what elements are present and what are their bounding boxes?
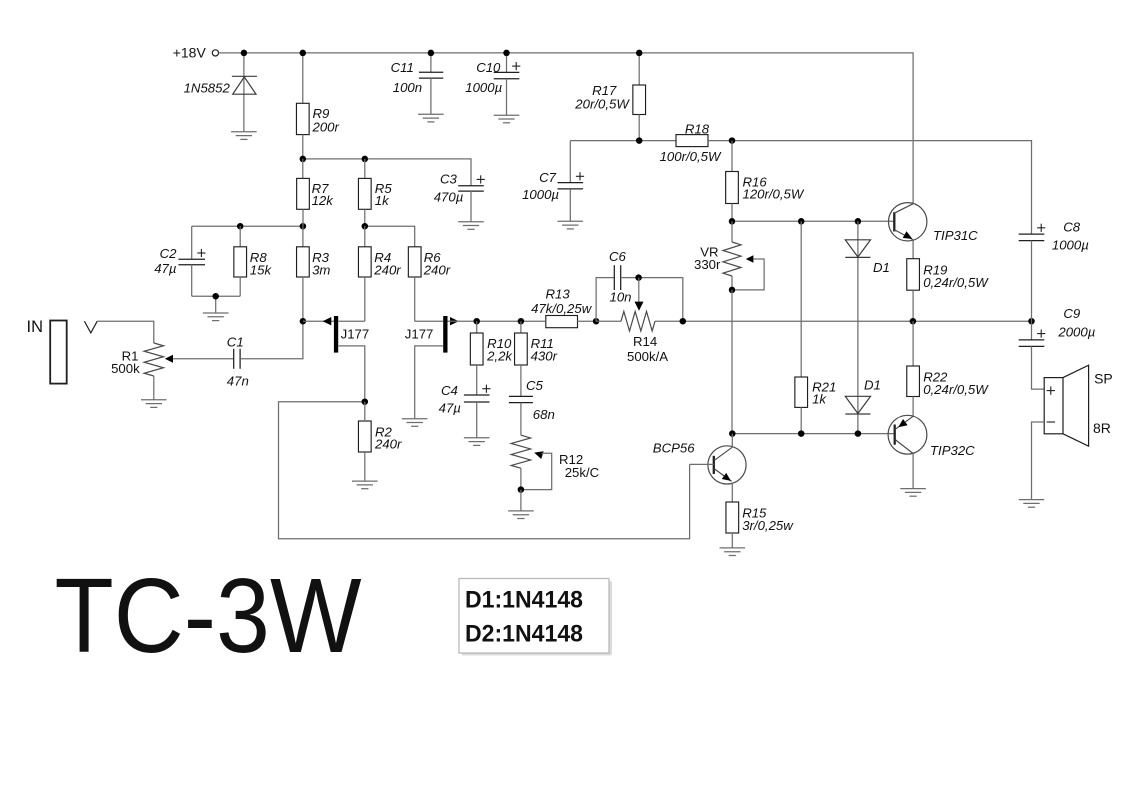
junction bias bottom/R21 (798, 430, 805, 437)
resistor R5 (358, 178, 371, 209)
svg-text:TIP32C: TIP32C (930, 443, 975, 458)
J1 gate arrow (323, 317, 332, 325)
capacitor C3 (458, 186, 484, 191)
wire R16 top (731, 141, 733, 172)
junction R12 wiper node (518, 486, 525, 493)
wire C2 top (191, 226, 193, 259)
svg-text:47k/0,25w: 47k/0,25w (531, 301, 593, 316)
svg-text:15k: 15k (250, 262, 273, 277)
wire C2-R8 link (192, 296, 241, 313)
svg-text:430r: 430r (531, 348, 558, 363)
junction bias bottom/D1 (855, 430, 862, 437)
wire R3 top (302, 226, 304, 247)
transistor J177 #1 channel bar (334, 316, 338, 353)
svg-text:C4: C4 (441, 383, 458, 398)
wire C11 top (430, 53, 432, 72)
junction bias top/R21 (798, 218, 805, 225)
resistor R8 (234, 247, 247, 277)
wire R11 bottom (520, 365, 522, 396)
wire R12 to ground (520, 490, 522, 511)
wire bias rail top (732, 220, 894, 222)
capacitor C1 (234, 349, 240, 369)
resistor R18 (676, 135, 708, 147)
wire R17 bottom (638, 115, 640, 141)
svg-text:240r: 240r (373, 262, 401, 277)
wire R9 node rail (303, 159, 471, 186)
junction R8 top node (237, 223, 244, 230)
wire signal rail (477, 320, 545, 322)
svg-text:3r/0,25w: 3r/0,25w (742, 518, 794, 533)
wire C8 bottom (1031, 241, 1033, 322)
svg-text:D1: D1 (873, 260, 890, 275)
wire R9 top (302, 53, 304, 103)
wire J2 drain stub (415, 320, 444, 322)
wire R2 bottom (364, 452, 366, 481)
junction R17/R18 node (636, 137, 643, 144)
svg-text:47µ: 47µ (154, 261, 177, 276)
junction gate1 node (300, 318, 307, 325)
junction R16/VR node (729, 218, 736, 225)
junction R13/R14 node (593, 318, 600, 325)
TIP31C emitter arrow (903, 231, 913, 239)
capacitor C6 (614, 265, 620, 290)
svg-text:0,24r/0,5W: 0,24r/0,5W (923, 275, 989, 290)
ground C3 (458, 222, 484, 230)
VR wiper arrow (746, 255, 754, 262)
resistor R15 (726, 502, 739, 533)
wire TIP31C emitter wire (912, 240, 914, 258)
wire C9 top (1031, 321, 1033, 340)
resistor R6 (408, 247, 421, 277)
svg-text:120r/0,5W: 120r/0,5W (743, 187, 805, 202)
wire C7 bottom (569, 189, 571, 221)
resistor R11 (515, 333, 528, 365)
svg-text:240r: 240r (423, 262, 451, 277)
wire BCP56 emitter wire (731, 483, 733, 502)
wire output rail (683, 320, 1032, 322)
svg-text:C3: C3 (440, 172, 458, 187)
svg-text:3m: 3m (312, 262, 330, 277)
wire gate bias rail left (192, 225, 303, 227)
diode D1 lower (845, 396, 870, 414)
svg-text:1N5852: 1N5852 (184, 81, 231, 96)
potentiometer R12 zigzag (511, 435, 530, 468)
wire R8 bottom (239, 277, 241, 296)
potentiometer VR zigzag (723, 242, 741, 276)
wire C1 to gate node (240, 321, 303, 359)
junction +18V/C11 (428, 50, 435, 57)
junction +18V/1N5852 (241, 50, 248, 57)
svg-text:R18: R18 (685, 122, 710, 137)
wire C4 bottom (476, 402, 478, 438)
capacitor C9 (1019, 340, 1045, 347)
wire input wire (97, 321, 154, 343)
wire TIP32C collector wire (912, 454, 914, 489)
junction C2/R8 gnd tap (212, 293, 219, 300)
resistor R9 (296, 103, 309, 134)
transistor J177 #2 channel bar (443, 316, 447, 353)
junction bias top/D1 (855, 218, 862, 225)
svg-text:C10: C10 (476, 60, 501, 75)
resistor R7 (297, 178, 310, 209)
terminal +18V (212, 50, 218, 56)
svg-text:J177: J177 (405, 327, 434, 342)
wire J1 gate wire (303, 320, 334, 322)
resistor R13 (546, 316, 578, 328)
wire R9 bottom (302, 135, 304, 159)
resistor R17 (633, 85, 646, 115)
svg-text:47µ: 47µ (439, 401, 462, 416)
wire R22 bottom (912, 397, 914, 417)
wire R4 bottom (drain) (364, 277, 366, 321)
wire R10 top (476, 321, 478, 333)
resistor R2 (358, 421, 371, 452)
R12 wiper arrow (534, 451, 543, 459)
junction VR wiper node (729, 287, 736, 294)
junction R10 node (473, 318, 480, 325)
wire VR top lead (731, 221, 733, 242)
svg-text:68n: 68n (533, 407, 555, 422)
ground C7 (558, 221, 584, 229)
ground speaker (1019, 500, 1045, 508)
svg-text:D1: D1 (864, 378, 881, 393)
svg-text:C11: C11 (391, 60, 414, 75)
junction +18V/R9 (300, 50, 307, 57)
R14 wiper arrow shaft (638, 278, 640, 303)
svg-text:100n: 100n (393, 80, 422, 95)
wire R13 to node (577, 320, 596, 322)
ground R12 (508, 511, 534, 519)
wire rail R18-C8 (708, 141, 1032, 235)
wire C6 left (596, 278, 614, 322)
svg-text:R13: R13 (545, 286, 570, 301)
wire gate bias rail right (365, 226, 415, 247)
diode 1N5852 (232, 76, 257, 94)
svg-text:+18V: +18V (173, 45, 207, 61)
ground R15 (720, 548, 746, 556)
diode D1 upper (845, 240, 870, 258)
wire R8 top (239, 226, 241, 247)
ground C4 (464, 438, 490, 446)
svg-text:IN: IN (27, 318, 44, 336)
wire R17 top (638, 53, 640, 85)
speaker + mark (1047, 386, 1055, 394)
junction R11 node (518, 318, 525, 325)
capacitor C4 (464, 395, 490, 402)
svg-text:100r/0,5W: 100r/0,5W (660, 149, 722, 164)
junction R9/R7 node (300, 156, 307, 163)
svg-text:330r: 330r (694, 257, 721, 272)
svg-text:C5: C5 (526, 378, 544, 393)
svg-text:470µ: 470µ (434, 189, 464, 204)
wire rail R17-R18 (570, 140, 676, 142)
wire +18V rail (219, 53, 914, 203)
R1 wiper arrow (165, 355, 173, 363)
speaker SP (1044, 365, 1088, 446)
wire R19 bottom (912, 290, 914, 321)
wire R2 top (364, 402, 366, 421)
ground J2 source (402, 419, 428, 427)
wire R21 bottom (800, 407, 802, 433)
wire 1N5852 anode/cathode (243, 53, 245, 132)
svg-text:500k: 500k (111, 361, 140, 376)
svg-text:C7: C7 (539, 170, 557, 185)
junction R14 right node (680, 318, 687, 325)
svg-text:C6: C6 (609, 249, 627, 264)
junction +18V/C10 (503, 50, 510, 57)
resistor R21 (795, 377, 808, 407)
wire R4 top (364, 226, 366, 247)
wire J2 gate wire (448, 320, 477, 322)
wire J2 source stub (415, 346, 444, 419)
wire C2 bottom (191, 265, 193, 297)
wire R14 left lead (596, 320, 621, 322)
svg-text:47n: 47n (227, 373, 249, 388)
svg-text:1k: 1k (375, 193, 390, 208)
svg-text:25k/C: 25k/C (565, 465, 600, 480)
ground 1N5852 (231, 132, 257, 140)
wire BCP56 base wire (690, 463, 714, 465)
ground TIP32C (900, 489, 926, 497)
svg-text:D2:1N4148: D2:1N4148 (465, 621, 583, 648)
wire R21 top (800, 221, 802, 377)
svg-text:R14: R14 (633, 334, 657, 349)
wire R12 bottom (520, 468, 522, 489)
potentiometer R1 zigzag (144, 343, 163, 376)
svg-text:200r: 200r (312, 119, 340, 134)
wire VR wiper (732, 259, 764, 290)
svg-text:2,2k: 2,2k (486, 348, 513, 363)
BCP56 emitter arrow (722, 473, 731, 481)
svg-text:J177: J177 (341, 327, 370, 342)
junction C6/wiper node (635, 274, 642, 281)
wire C9 bottom (1032, 346, 1045, 389)
svg-text:0,24r/0,5W: 0,24r/0,5W (923, 382, 989, 397)
potentiometer R14 zigzag (621, 311, 655, 331)
capacitor C5 (509, 396, 533, 402)
capacitor C11 (419, 72, 443, 78)
svg-text:SP: SP (1094, 370, 1113, 386)
svg-text:TC-3W: TC-3W (55, 557, 362, 675)
wire R22 top (912, 321, 914, 366)
wire speaker return (1032, 422, 1045, 500)
svg-text:C8: C8 (1063, 220, 1081, 235)
wire D1 upper top (857, 221, 859, 433)
wire C10 top (506, 53, 508, 73)
svg-text:1000µ: 1000µ (522, 187, 559, 202)
svg-text:TIP31C: TIP31C (933, 228, 978, 243)
wire R5 bottom (364, 209, 366, 226)
resistor R22 (907, 366, 920, 397)
wire J1 drain stub (338, 320, 365, 322)
ground C11 (418, 114, 444, 122)
junction output/R19 (910, 318, 917, 325)
wire R1 wiper to C1 (173, 358, 234, 360)
svg-text:C9: C9 (1063, 306, 1081, 321)
wire VR to BCP56 collector (731, 290, 733, 434)
wire R15 bottom (731, 533, 733, 548)
svg-text:10n: 10n (610, 290, 632, 305)
transistor TIP31C (889, 203, 927, 241)
transistor TIP32C (888, 415, 927, 454)
svg-text:1000µ: 1000µ (465, 80, 502, 95)
resistor R10 (470, 333, 483, 365)
wire VR bottom lead (731, 276, 733, 290)
svg-text:500k/A: 500k/A (627, 349, 668, 364)
wire C5 bottom (520, 403, 522, 436)
svg-text:20r/0,5W: 20r/0,5W (574, 97, 630, 112)
junction +18V/R17 (636, 50, 643, 57)
junction output/C8-C9 (1028, 318, 1035, 325)
wire R12 wiper (521, 453, 552, 489)
wire R6 bottom (drain) (414, 277, 416, 321)
junction R5 top node (362, 156, 369, 163)
svg-text:C1: C1 (227, 335, 244, 350)
input plug tip (84, 321, 97, 333)
ground C2/R8 (203, 313, 229, 321)
junction R18/R16 node (729, 137, 736, 144)
junction J1 source/R2/feedback (362, 398, 369, 405)
legend box shadow (462, 581, 613, 656)
wire R11 top (520, 321, 522, 333)
wire R1 bottom (153, 376, 155, 400)
resistor R4 (358, 247, 371, 277)
wire R7 bottom (302, 209, 304, 226)
svg-text:C2: C2 (160, 246, 178, 261)
wire bias rail bottom (732, 433, 893, 435)
capacitor C8 (1019, 234, 1045, 241)
wire R10 bottom (476, 365, 478, 395)
wire C7 top (569, 141, 571, 183)
ground R2 (352, 481, 378, 489)
wire R16 bottom (731, 204, 733, 222)
junction BCP56 collector node (729, 430, 736, 437)
ground C10 (494, 115, 520, 123)
svg-text:BCP56: BCP56 (653, 440, 695, 455)
wire R7 top (302, 159, 304, 179)
resistor R19 (907, 259, 920, 291)
wire J1 source stub (338, 346, 365, 402)
svg-text:D1:1N4148: D1:1N4148 (465, 587, 583, 614)
svg-text:12k: 12k (312, 193, 335, 208)
svg-text:2000µ: 2000µ (1057, 324, 1095, 339)
TIP32C emitter arrow (898, 419, 907, 427)
svg-text:1000µ: 1000µ (1052, 238, 1089, 253)
speaker - mark (1047, 421, 1055, 423)
capacitor C10 (494, 72, 520, 78)
junction R7/R3 node (300, 223, 307, 230)
svg-text:1k: 1k (812, 392, 827, 407)
legend box (459, 579, 609, 654)
resistor R16 (726, 172, 739, 204)
junction R5/R4 node (362, 223, 369, 230)
capacitor C7 (558, 183, 584, 189)
J2 gate arrow (450, 317, 459, 325)
resistor R3 (297, 247, 310, 277)
wire C3 bottom (470, 191, 472, 222)
capacitor C2 (178, 259, 205, 264)
wire BCP56 collector wire (731, 434, 733, 448)
wire C10 bottom (506, 79, 508, 116)
wire feedback (279, 402, 690, 539)
wire R3 bottom (302, 277, 304, 321)
R14 wiper arrow (635, 302, 644, 311)
wire R5 top (364, 159, 366, 179)
ground R1 (141, 400, 167, 408)
svg-text:240r: 240r (374, 437, 402, 452)
wire C11 bottom (430, 78, 432, 114)
wire C6 right (621, 278, 683, 322)
input jack body (50, 321, 66, 384)
transistor BCP56 (708, 446, 746, 484)
svg-text:8R: 8R (1093, 420, 1111, 436)
wire R14 right lead (655, 320, 683, 322)
